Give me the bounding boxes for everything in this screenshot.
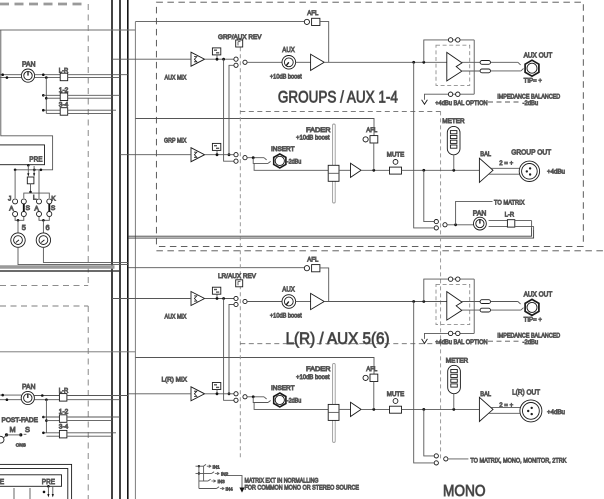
wire: L-R pan return pair lower bbox=[128, 230, 533, 238]
wire: rev crossover B (grp up) bbox=[228, 65, 234, 156]
meter bargraph (grp) bbox=[447, 126, 460, 170]
wire: PRE box outputs bbox=[14, 164, 42, 177]
svg-text:FADER: FADER bbox=[306, 127, 331, 134]
svg-text:FADER: FADER bbox=[306, 366, 331, 373]
svg-text:AUX OUT: AUX OUT bbox=[524, 290, 553, 299]
wire: switch outputs join to jack 5 bbox=[15, 217, 24, 233]
svg-text:-2dBu: -2dBu bbox=[523, 339, 539, 346]
balanced driver amp (aux5-6) bbox=[447, 292, 462, 321]
wire: resistor to jack tip (lower) bbox=[491, 302, 521, 305]
svg-text:+4dBu: +4dBu bbox=[547, 409, 565, 416]
svg-text:L(R) / AUX 5(6): L(R) / AUX 5(6) bbox=[286, 329, 390, 348]
bal output amp (l-r) bbox=[479, 397, 493, 421]
wire: 1-2 assign to bus (strip 2) bbox=[67, 417, 120, 421]
jack socket 5 bbox=[11, 233, 25, 247]
wire: AFL bus AUX (top) bbox=[135, 21, 304, 23]
svg-text:+4dBu: +4dBu bbox=[547, 168, 565, 175]
mono jack (edge) bbox=[0, 435, 7, 443]
op-amp L-R mix sum bbox=[191, 387, 205, 401]
svg-text:2 = +: 2 = + bbox=[499, 160, 513, 167]
balanced driver amp (aux) bbox=[447, 52, 462, 81]
wire: fader block outline (strip 1) bbox=[1, 30, 53, 170]
wire: rev crossover A (lower) bbox=[224, 299, 234, 401]
svg-text:MUTE: MUTE bbox=[387, 391, 405, 398]
PRE block outer frame (strip 2) bbox=[0, 464, 72, 499]
svg-text:MONO: MONO bbox=[443, 483, 486, 499]
switch: bal option top (aux5-6) bbox=[448, 277, 460, 281]
wire: mute to bal amp (lower) bbox=[402, 408, 480, 411]
switch contacts row 1 (J/L/K) bbox=[13, 199, 52, 204]
wire: bundle dark line bbox=[0, 270, 120, 272]
AFL switch (aux5-6) bbox=[312, 265, 320, 272]
wire: fader to post amp bbox=[339, 169, 351, 171]
XLR connector L(R) OUT bbox=[520, 400, 542, 422]
jack AUX OUT (lower) bbox=[525, 299, 539, 315]
svg-text:TO MATRIX: TO MATRIX bbox=[494, 200, 525, 207]
svg-text:+4dBu BAL OPTION: +4dBu BAL OPTION bbox=[435, 100, 488, 107]
wire: 1-2 assign to bus (strip 1) bbox=[68, 95, 120, 98]
pan pot (groups) bbox=[474, 217, 487, 230]
inner dashed separator vertical (rev switches) bbox=[239, 47, 241, 459]
switch: L-R assign (groups) bbox=[507, 220, 514, 227]
routing switch 1-2 (strip 1) bbox=[60, 93, 67, 101]
mute switch (grp) bbox=[390, 167, 402, 174]
wire: insert return to fader bbox=[254, 163, 333, 170]
op-amp aux boost bbox=[311, 54, 325, 70]
resistor R1 (aux out +) bbox=[480, 61, 490, 65]
svg-text:POST-FADE: POST-FADE bbox=[2, 417, 39, 424]
channel strip 2 dashed top edge bbox=[0, 305, 88, 307]
AFL lamp (aux) bbox=[304, 19, 309, 24]
wire: dashed option link (aux5-6) bbox=[488, 340, 521, 342]
wire: post amp to mute (lower) bbox=[361, 382, 389, 411]
svg-text:3-4: 3-4 bbox=[59, 423, 69, 430]
AFL lamp (grp) bbox=[363, 137, 368, 142]
svg-text:INSERT: INSERT bbox=[271, 385, 295, 392]
svg-text:2 = +: 2 = + bbox=[499, 402, 513, 409]
svg-text:AUX: AUX bbox=[282, 284, 295, 293]
svg-text:LR/AUX REV: LR/AUX REV bbox=[218, 273, 257, 280]
channel strip 1 dashed right edge bbox=[87, 4, 89, 286]
svg-text:METER: METER bbox=[446, 357, 469, 364]
rev switch cap (top) bbox=[236, 40, 243, 47]
wire: grp amp out to rev switch bbox=[205, 153, 234, 156]
svg-text:IMPEDANCE BALANCED: IMPEDANCE BALANCED bbox=[497, 333, 560, 340]
resistor R4 (aux5-6 out -) bbox=[480, 308, 490, 312]
wire: fader to post amp (lower) bbox=[339, 408, 351, 410]
mute lamp (grp) bbox=[393, 160, 398, 165]
inner dashed label line (L-R) bbox=[240, 343, 440, 345]
wire: rev crossover A (aux out down) bbox=[224, 59, 234, 161]
wire: matrix switch out bbox=[448, 458, 469, 460]
svg-text:5: 5 bbox=[22, 223, 26, 232]
svg-text:MUTE: MUTE bbox=[387, 152, 405, 159]
wire: AFL bus GRP bbox=[135, 119, 374, 136]
wire: resistor to jack sleeve (lower) bbox=[491, 308, 524, 310]
routing switch 3-4 (strip 2) bbox=[59, 430, 67, 438]
wire: l-r amp out to rev switch bbox=[205, 392, 234, 395]
AFL switch (l-r) bbox=[370, 374, 378, 381]
svg-text:TIP= +: TIP= + bbox=[524, 317, 542, 324]
bus vertical line 3 bbox=[127, 0, 129, 499]
bus vertical line 1 bbox=[111, 0, 113, 499]
wire: L-R assign to bus (strip 2) bbox=[67, 396, 128, 400]
wire: routing feed vertical (strip 2) bbox=[42, 400, 59, 437]
balance trim icon (aux lower) bbox=[212, 287, 220, 298]
resistor R2 (aux out -) bbox=[480, 69, 490, 73]
wire: rev crossover B (lower) bbox=[228, 305, 234, 396]
wire: aux5-6 feed down to matrix switch bbox=[414, 302, 435, 463]
svg-text:+10dB boost: +10dB boost bbox=[296, 135, 330, 142]
svg-text:IMPEDANCE BALANCED: IMPEDANCE BALANCED bbox=[497, 94, 560, 101]
jack socket 6 bbox=[36, 233, 50, 247]
wire: insert normalling lower contact (lower) bbox=[253, 397, 270, 403]
svg-text:AUX MIX: AUX MIX bbox=[165, 314, 187, 321]
routing switch 1-2 (strip 2) bbox=[59, 415, 67, 423]
channel strip 1 dashed box bottom (top edge dashes) bbox=[0, 3, 86, 6]
svg-text:PRE: PRE bbox=[0, 477, 4, 486]
wire: driver outputs (aux) bbox=[462, 62, 481, 71]
wire: grp feed down to pan switch bbox=[424, 170, 434, 221]
insert jack (grp) bbox=[274, 154, 286, 168]
resistor R3 (aux5-6 out +) bbox=[480, 300, 490, 304]
wire: AFL bus AUX 5-6 bbox=[128, 267, 304, 269]
wire: stereo bundle band bbox=[0, 265, 115, 268]
svg-text:BAL: BAL bbox=[480, 151, 491, 158]
switch: grp/aux rev (grp row) bbox=[234, 153, 247, 164]
svg-text:METER: METER bbox=[442, 118, 465, 125]
pan pot P2 (strip 2) bbox=[21, 391, 34, 404]
switch: lr/aux rev (l-r row) bbox=[234, 392, 247, 403]
svg-text:S: S bbox=[25, 425, 30, 434]
wire: dashed option link (aux) bbox=[488, 101, 521, 103]
svg-text:S: S bbox=[26, 205, 31, 212]
channel strip 1 dashed bottom edge bbox=[0, 285, 88, 287]
svg-text:INSERT: INSERT bbox=[271, 146, 295, 153]
aux level pot bbox=[282, 56, 296, 70]
switch: bal option bottom (aux) bbox=[448, 92, 460, 96]
op-amp grp post fader bbox=[351, 163, 362, 177]
wire: post amp to mute bbox=[361, 143, 389, 172]
routing switch 3-4 (strip 1) bbox=[60, 108, 67, 116]
mute lamp (l-r) bbox=[393, 399, 398, 404]
wire: pan pot out pair bbox=[489, 221, 508, 227]
svg-text:-2dBu: -2dBu bbox=[523, 100, 539, 107]
wire: bal pair to XLR (grp) bbox=[489, 168, 519, 174]
wire: bal option bottom rail (aux5-6) bbox=[425, 333, 475, 339]
switch closed bars bbox=[24, 204, 50, 212]
switch: bal option bottom (aux5-6) bbox=[448, 331, 460, 335]
wire: amp out to rev switch (aux lower) bbox=[205, 297, 234, 300]
wire: boost amp to balanced driver bbox=[324, 61, 446, 64]
wire: AFL bus L(R) bbox=[135, 358, 374, 375]
balanced driver dashed box (aux5-6) bbox=[436, 284, 470, 324]
svg-text:TO MATRIX, MONO, MONITOR, 2TRK: TO MATRIX, MONO, MONITOR, 2TRK bbox=[470, 457, 566, 464]
wire: input pair to pan (strip 1) bbox=[0, 73, 21, 79]
wire: 3-4 assign to bus (strip 1) bbox=[68, 110, 116, 113]
bus vertical line 4 (mix feed) bbox=[134, 22, 136, 499]
insert jack (l-r) bbox=[274, 393, 286, 407]
wire: AFL switch to aux bus tap (lower) bbox=[320, 268, 329, 302]
inner dashed label line (GROUPS) bbox=[240, 110, 440, 112]
wire: routing feed vertical (strip 1) bbox=[42, 78, 60, 114]
L(R)/AUX section dashed top edge bbox=[156, 250, 604, 252]
wire: insert return to fader (lower) bbox=[254, 403, 333, 410]
svg-text:GRP MIX: GRP MIX bbox=[164, 138, 187, 145]
wire: l-r mix bus to amp bbox=[128, 393, 191, 395]
balanced driver dashed box (aux) bbox=[436, 45, 470, 85]
pre/post select square (strip 1) bbox=[27, 177, 34, 184]
svg-text:L(R) MIX: L(R) MIX bbox=[162, 377, 188, 384]
wire: resistor to jack tip bbox=[491, 62, 521, 65]
wire: bal option top rail (aux5-6) bbox=[424, 279, 474, 333]
wire: AFL switch to aux bus tap bbox=[320, 22, 329, 63]
PRE box (strip 1) bbox=[0, 145, 45, 165]
wire: mute to bal amp bbox=[402, 169, 480, 172]
mute switch (l-r) bbox=[390, 406, 402, 413]
GROUPS/AUX section dashed box bbox=[156, 2, 583, 246]
svg-text:L-R: L-R bbox=[505, 212, 515, 219]
switch: bal option top (aux) bbox=[448, 38, 460, 42]
matrix ext in normalling contacts bbox=[196, 464, 225, 489]
wire: l-r feed down to matrix switch bbox=[424, 409, 434, 456]
svg-text:AUX: AUX bbox=[282, 45, 295, 54]
svg-text:PAN: PAN bbox=[22, 60, 36, 69]
svg-text:J: J bbox=[8, 196, 11, 203]
wire: bal option top rail (aux) bbox=[424, 40, 474, 94]
svg-text:AUX OUT: AUX OUT bbox=[524, 51, 553, 60]
wire: insert normalling lower contact bbox=[253, 158, 270, 164]
wire: pot to boost amp (lower) bbox=[296, 301, 311, 303]
wire: to matrix feed bbox=[456, 201, 493, 224]
wire: 3-4 assign to bus (strip 2) bbox=[67, 433, 116, 436]
wire: switch outputs join to jack 6 bbox=[39, 217, 49, 233]
svg-text:6: 6 bbox=[46, 223, 50, 232]
svg-text:L(R) OUT: L(R) OUT bbox=[512, 388, 540, 397]
channel strip 2 dashed right edge bbox=[87, 306, 89, 499]
svg-text:AFL: AFL bbox=[366, 366, 377, 373]
switch: grp/aux rev (aux row) bbox=[234, 57, 247, 67]
wire: pan switch to pan pot bbox=[447, 223, 474, 226]
balance trim icon (aux) bbox=[212, 48, 220, 59]
svg-text:FOR COMMON MONO OR STEREO SOUR: FOR COMMON MONO OR STEREO SOURCE bbox=[245, 485, 360, 492]
svg-text:PRE: PRE bbox=[42, 477, 55, 486]
AFL switch (aux) bbox=[312, 18, 320, 25]
wire: amp out to rev switch (aux) bbox=[205, 58, 234, 61]
wire: input pair to pan (strip 2) bbox=[0, 394, 21, 401]
wire: jack 5 tail to bundle bbox=[18, 247, 128, 264]
M-S mode switch bbox=[5, 433, 27, 436]
wire: pot to boost amp bbox=[296, 61, 311, 63]
op-amp grp mix sum bbox=[191, 148, 205, 162]
switch: pan source select bbox=[434, 220, 447, 230]
svg-text:AFL: AFL bbox=[307, 257, 318, 264]
svg-text:S: S bbox=[51, 205, 56, 212]
wire: jack 6 tail to bundle bbox=[43, 247, 128, 262]
wire: L-R pan return pair upper bbox=[128, 228, 532, 236]
op-amp aux boost (lower) bbox=[311, 293, 325, 309]
wire: select square to switch bar bbox=[15, 170, 49, 198]
XLR connector GROUP OUT bbox=[519, 161, 539, 181]
bal output amp (grp) bbox=[479, 158, 493, 182]
rev switch cap (lower) bbox=[236, 280, 243, 287]
switch contacts row 2 (A/S) bbox=[13, 212, 52, 217]
wire: pan out pair to routing (strip 1) bbox=[35, 73, 60, 79]
wire: aux feed down to pan switch bbox=[414, 62, 435, 228]
svg-text:GROUP OUT: GROUP OUT bbox=[511, 148, 551, 157]
ground (aux5-6 bal) bbox=[422, 339, 428, 344]
aux level pot (lower) bbox=[282, 295, 296, 309]
wire: resistor to jack sleeve bbox=[491, 69, 524, 71]
jack AUX OUT bbox=[525, 60, 539, 76]
wire: aux mix bus to amp bbox=[112, 58, 191, 60]
svg-text:PRE: PRE bbox=[29, 154, 42, 163]
wire: rev switch to insert send (lower) bbox=[247, 395, 267, 399]
wire: bal option bottom rail (aux) bbox=[425, 94, 475, 100]
routing switch L-R (strip 2) bbox=[59, 394, 67, 402]
svg-text:+10dB boost: +10dB boost bbox=[270, 313, 302, 320]
svg-text:PAN: PAN bbox=[22, 382, 36, 391]
svg-text:+4dBu BAL OPTION: +4dBu BAL OPTION bbox=[435, 339, 488, 346]
balance trim icon (grp) bbox=[212, 143, 220, 154]
matrix ext pointer arrow bbox=[224, 476, 245, 493]
ground (aux bal) bbox=[422, 100, 428, 105]
svg-text:M: M bbox=[10, 425, 16, 434]
wire: L-R switch out pair to bus bbox=[515, 221, 534, 231]
svg-text:MATRIX EXT IN NORMALLING: MATRIX EXT IN NORMALLING bbox=[245, 477, 319, 484]
wire: driver outputs (aux5-6) bbox=[462, 302, 481, 311]
svg-text:GROUPS / AUX 1-4: GROUPS / AUX 1-4 bbox=[278, 88, 398, 107]
svg-text:BAL: BAL bbox=[480, 391, 491, 398]
svg-text:AFL: AFL bbox=[366, 127, 377, 134]
bus vertical line 2 bbox=[119, 0, 121, 499]
fader (grp) bbox=[328, 124, 339, 203]
switch: lr/aux rev (aux row) bbox=[234, 296, 247, 306]
wire: rev switch to insert send bbox=[247, 156, 267, 160]
svg-text:+10dB boost: +10dB boost bbox=[296, 374, 330, 381]
svg-text:IN1: IN1 bbox=[213, 464, 221, 469]
svg-text:IN3: IN3 bbox=[218, 479, 226, 484]
wire: L-R assign to bus (strip 1) bbox=[68, 75, 128, 78]
AFL lamp (aux5-6) bbox=[304, 266, 309, 271]
op-amp aux 5-6 mix sum bbox=[191, 292, 205, 306]
meter dashed separator vertical bbox=[440, 111, 442, 459]
svg-text:TIP= +: TIP= + bbox=[524, 77, 542, 84]
svg-text:AFL: AFL bbox=[307, 10, 318, 17]
wire: pan out pair to routing (strip 2) bbox=[34, 394, 59, 401]
balance trim icon (l-r) bbox=[212, 383, 220, 394]
op-amp l-r post fader bbox=[351, 402, 362, 416]
wire: rev switch to aux pot (lower) bbox=[247, 301, 282, 303]
svg-text:-2dBu: -2dBu bbox=[287, 398, 302, 405]
wire: left input to bus (top) bbox=[0, 29, 135, 31]
wire: bal pair to XLR (l-r) bbox=[489, 407, 521, 413]
PRE block inner frame (strip 2) bbox=[0, 469, 68, 499]
AFL switch (grp) bbox=[370, 136, 378, 143]
wire: aux mix bus to amp (lower) bbox=[112, 298, 191, 300]
pan pot P1 (strip 1) bbox=[21, 69, 34, 82]
svg-text:AUX MIX: AUX MIX bbox=[165, 75, 187, 82]
fader (l-r) bbox=[328, 363, 339, 442]
wire: grp mix bus to amp bbox=[120, 154, 191, 156]
wire: PRE outputs (strip 2) bbox=[14, 485, 54, 499]
wire: rev switch to aux pot bbox=[247, 61, 282, 63]
switch: to-matrix source select bbox=[434, 454, 448, 465]
routing switch L-R (strip 1) bbox=[60, 73, 67, 81]
svg-text:ONS: ONS bbox=[16, 443, 26, 448]
svg-text:-2dBu: -2dBu bbox=[287, 159, 302, 166]
svg-text:PAN: PAN bbox=[473, 209, 487, 218]
op-amp U1 aux mix sum bbox=[191, 52, 205, 66]
wire: boost amp to balanced driver (lower) bbox=[324, 300, 446, 303]
svg-text:IN4: IN4 bbox=[226, 487, 234, 492]
svg-text:+10dB boost: +10dB boost bbox=[270, 73, 302, 80]
meter bargraph (l-r) bbox=[448, 365, 461, 409]
AFL lamp (l-r) bbox=[363, 375, 368, 380]
wire: left input to bus (lower) bbox=[0, 351, 135, 353]
PRE box (strip 2) bbox=[0, 475, 62, 487]
